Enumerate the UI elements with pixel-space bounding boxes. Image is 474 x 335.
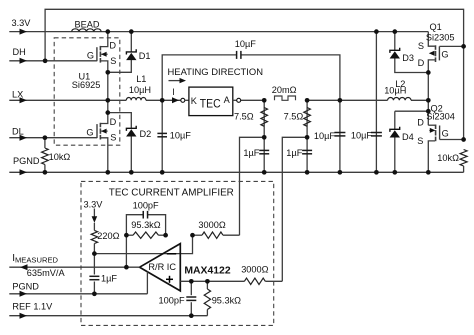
wire feedback to output — [125, 235, 127, 267]
transistor Q2 Si2304 (N-channel) — [417, 103, 463, 172]
node DH / gate rail junction — [43, 58, 48, 63]
wire op-amp output (IMEASURED) — [9, 266, 139, 268]
wire L1 to TEC K terminal — [146, 99, 181, 101]
svg-text:D2: D2 — [140, 129, 152, 139]
TEC current amplifier box (dashed) — [81, 181, 274, 325]
diode D2 (Schottky) — [126, 126, 151, 173]
capacitor C9 100pF (feedback) — [126, 200, 165, 235]
transistor U1a (P-channel, top half of Si6925) — [87, 32, 117, 73]
terminal 3.3V — [12, 18, 32, 35]
node C3 at PGND — [262, 170, 267, 175]
svg-text:635mV/A: 635mV/A — [27, 268, 66, 278]
terminal REF 1.1V — [9, 302, 207, 319]
node U1a drain at 3.3V — [105, 29, 110, 34]
node K terminal circle — [181, 98, 185, 102]
node D1 cathode at 3.3V — [129, 29, 134, 34]
svg-text:10kΩ: 10kΩ — [437, 153, 459, 163]
svg-text:7.5Ω: 7.5Ω — [234, 112, 254, 122]
svg-text:10µH: 10µH — [129, 85, 151, 95]
arrow I (current direction) — [172, 97, 179, 103]
transistor U1b (N-channel, bottom half of Si6925) — [86, 100, 116, 172]
node C2 at PGND — [160, 170, 165, 175]
svg-text:D4: D4 — [402, 132, 414, 142]
node sense right — [305, 98, 310, 103]
resistor R9 95.3k (feedback) — [126, 220, 165, 238]
svg-text:3.3V: 3.3V — [84, 200, 104, 210]
wire LX line — [9, 99, 108, 101]
svg-text:IMEASURED: IMEASURED — [12, 253, 58, 265]
svg-text:A: A — [224, 95, 231, 105]
node R3 tap — [262, 135, 267, 140]
node sense- to amplifier (vertical to 3000 ohm R8) — [282, 137, 307, 281]
wire top gate rail from DH to right-side gates — [45, 9, 464, 139]
svg-text:D3: D3 — [402, 53, 414, 63]
ferrite bead FB1 — [72, 19, 102, 31]
resistor R3 7.5 (left) — [234, 108, 268, 127]
wire inverting input (220R node to op-amp) — [94, 235, 192, 253]
svg-text:G: G — [441, 49, 448, 59]
svg-text:10µF: 10µF — [314, 131, 336, 141]
node D4 anode at PGND — [392, 170, 397, 175]
node C10 at PGND — [92, 291, 97, 296]
resistor R2 20m (current sense) — [272, 85, 297, 100]
diode D4 (Schottky) — [390, 111, 429, 172]
wire 7.5ohm left column — [263, 100, 265, 172]
node C4 at PGND — [305, 170, 310, 175]
transistor Q1 Si2305 (P-channel) — [418, 22, 464, 125]
capacitor C11 100pF (ref filter) — [159, 281, 197, 315]
terminal IMEASURED — [12, 253, 65, 278]
node D2 anode at PGND — [129, 170, 134, 175]
wire U1a source / D1 anode to LX node — [108, 60, 132, 101]
terminal DH — [13, 47, 28, 64]
wire LX node to L1 — [108, 99, 127, 101]
node inverting input — [190, 233, 195, 238]
wire 7.5ohm right column — [306, 100, 308, 172]
node C11 at +input — [189, 279, 194, 284]
wire L2 to Q1/Q2 drain node — [411, 99, 428, 101]
svg-text:100pF: 100pF — [159, 296, 185, 306]
node feedback right — [163, 233, 168, 238]
svg-text:S: S — [110, 132, 116, 142]
terminal DL — [12, 127, 27, 141]
resistor R5 10k (gate pulldown) — [437, 150, 467, 173]
svg-text:REF 1.1V: REF 1.1V — [12, 302, 53, 312]
wire C2 10uF column — [161, 100, 163, 172]
node D4 cathode at Q2 drain — [426, 109, 431, 114]
terminal PGND (power stage) — [13, 156, 40, 175]
svg-text:Si2304: Si2304 — [426, 111, 455, 121]
svg-text:D: D — [110, 117, 117, 127]
heating direction annotation — [168, 67, 264, 83]
capacitor C4 1uF (right filter) — [286, 148, 312, 158]
diode D3 (Schottky) — [390, 32, 429, 73]
svg-text:G: G — [86, 128, 93, 138]
wire TEC A to 20m sense resistor — [241, 99, 265, 101]
svg-text:Si6925: Si6925 — [72, 80, 101, 90]
svg-text:100pF: 100pF — [133, 200, 159, 210]
svg-text:10µH: 10µH — [384, 86, 406, 96]
svg-text:10µF: 10µF — [235, 39, 257, 49]
svg-text:Q1: Q1 — [430, 22, 442, 32]
svg-text:S: S — [418, 41, 424, 51]
capacitor C5 10uF (TEC supply bypass) — [314, 131, 346, 141]
wire D2 cathode to U1b drain — [108, 113, 132, 129]
capacitor C3 1uF (left filter) — [243, 148, 269, 158]
resistor R6 3000 (to sense+) — [193, 220, 240, 238]
svg-text:BEAD: BEAD — [75, 19, 100, 29]
svg-text:20mΩ: 20mΩ — [272, 85, 297, 95]
svg-text:D1: D1 — [139, 51, 151, 61]
inductor L2 10uH — [384, 79, 411, 101]
terminal LX — [12, 89, 27, 103]
capacitor C10 1uF (bias filter) — [89, 254, 117, 294]
svg-text:PGND: PGND — [13, 156, 40, 166]
wire non-inverting input — [180, 280, 244, 282]
svg-text:MAX4122: MAX4122 — [184, 265, 230, 276]
svg-text:HEATING DIRECTION: HEATING DIRECTION — [168, 67, 264, 77]
svg-text:3000Ω: 3000Ω — [241, 265, 268, 275]
node U1b drain / D2 — [105, 110, 110, 115]
wire DH line to U1 top gate — [9, 60, 97, 62]
resistor R8 3000 (to sense-) — [241, 265, 282, 285]
wire C7 10uF column — [339, 100, 341, 172]
svg-text:K: K — [191, 96, 198, 106]
wire C8 10uF column (3.3V bypass) — [375, 32, 377, 173]
node D3 cathode at 3.3V — [392, 29, 397, 34]
svg-text:1µF: 1µF — [243, 148, 259, 158]
svg-text:PGND: PGND — [12, 281, 39, 291]
svg-text:220Ω: 220Ω — [97, 231, 119, 241]
node C6 at PGND — [374, 170, 379, 175]
node output / feedback — [124, 265, 129, 270]
svg-text:95.3kΩ: 95.3kΩ — [131, 220, 160, 230]
node C6 at 3.3V — [374, 29, 379, 34]
svg-text:S: S — [417, 136, 423, 146]
capacitor C2 10uF (TEC node to PGND) — [157, 130, 191, 140]
wire bypass bridge across TEC (node K to sense output) — [162, 55, 340, 100]
svg-text:1µF: 1µF — [101, 274, 117, 284]
TEC module box — [189, 87, 233, 116]
resistor R10 95.3k (ref) — [204, 281, 241, 315]
resistor R4 7.5 (right) — [284, 108, 311, 127]
node R1 at DL — [43, 135, 48, 140]
node A terminal circle — [237, 98, 241, 102]
wire sense resistor to L2 — [307, 99, 388, 101]
node Q1 gate at rail — [461, 44, 466, 49]
svg-text:7.5Ω: 7.5Ω — [284, 112, 304, 122]
svg-text:S: S — [110, 56, 116, 66]
svg-text:1µF: 1µF — [286, 148, 302, 158]
wire 3.3V rail — [9, 31, 108, 33]
wire PGND rail — [9, 171, 463, 173]
node R4 tap — [305, 135, 310, 140]
node L2 to Q drains — [426, 98, 431, 103]
node Q2 gate at rail — [461, 137, 466, 142]
svg-text:10µF: 10µF — [170, 130, 192, 140]
U1 label — [72, 71, 101, 90]
node C11 at REF — [189, 313, 194, 318]
supply 3.3V (amplifier) — [84, 200, 104, 231]
svg-text:D: D — [417, 117, 424, 127]
svg-text:R/R IC: R/R IC — [148, 262, 176, 272]
wire K stub — [185, 99, 189, 101]
U1 package outline (dashed) — [54, 38, 120, 145]
svg-text:10µF: 10µF — [351, 130, 373, 140]
wire A stub — [233, 99, 237, 101]
wire DL line to U1 bottom gate — [9, 137, 97, 139]
svg-text:95.3kΩ: 95.3kΩ — [212, 296, 241, 306]
op-amp U2 MAX4122 (rail-to-rail) — [140, 244, 181, 291]
node feedback left — [124, 233, 129, 238]
svg-text:TEC: TEC — [200, 97, 221, 111]
svg-text:G: G — [442, 128, 449, 138]
capacitor C1 10uF (bridge across TEC+sense) — [235, 39, 257, 59]
svg-text:Si2305: Si2305 — [426, 32, 455, 42]
inductor L1 10uH — [126, 74, 151, 101]
svg-text:D: D — [109, 40, 116, 50]
svg-text:G: G — [87, 50, 94, 60]
node LX switch — [105, 98, 110, 103]
svg-text:LX: LX — [12, 89, 23, 99]
node Q2 source at PGND — [426, 170, 431, 175]
wire op-amp V- to PGND — [146, 272, 148, 294]
svg-text:D: D — [418, 58, 425, 68]
node R1 at PGND — [43, 170, 48, 175]
svg-text:3000Ω: 3000Ω — [198, 220, 225, 230]
node R7 / inverting bias — [92, 251, 97, 256]
capacitor C6 10uF (3.3V bypass) — [351, 130, 382, 140]
terminal PGND (amplifier) — [9, 281, 147, 296]
svg-text:TEC CURRENT AMPLIFIER: TEC CURRENT AMPLIFIER — [109, 187, 234, 198]
node TEC K bridge tap — [160, 98, 165, 103]
resistor R1 10k (DL pulldown) — [42, 138, 71, 173]
node U1a source / D1 anode — [105, 70, 110, 75]
svg-text:DH: DH — [13, 47, 26, 57]
node D3 anode at Q1 drain — [426, 70, 431, 75]
node C5 at PGND — [338, 170, 343, 175]
svg-text:DL: DL — [12, 127, 24, 137]
svg-text:I: I — [172, 87, 175, 97]
svg-text:3.3V: 3.3V — [12, 18, 32, 28]
diode D1 (Schottky) — [126, 32, 150, 61]
node bridge right tap — [338, 98, 343, 103]
node U1b source at PGND — [105, 170, 110, 175]
svg-text:10kΩ: 10kΩ — [49, 152, 71, 162]
node sense left — [262, 98, 267, 103]
svg-text:L1: L1 — [136, 74, 146, 84]
node sense+ to amplifier (vertical to 3000 ohm R6) — [240, 137, 265, 235]
node R10 at +input — [205, 279, 210, 284]
resistor R7 220 — [91, 230, 119, 253]
